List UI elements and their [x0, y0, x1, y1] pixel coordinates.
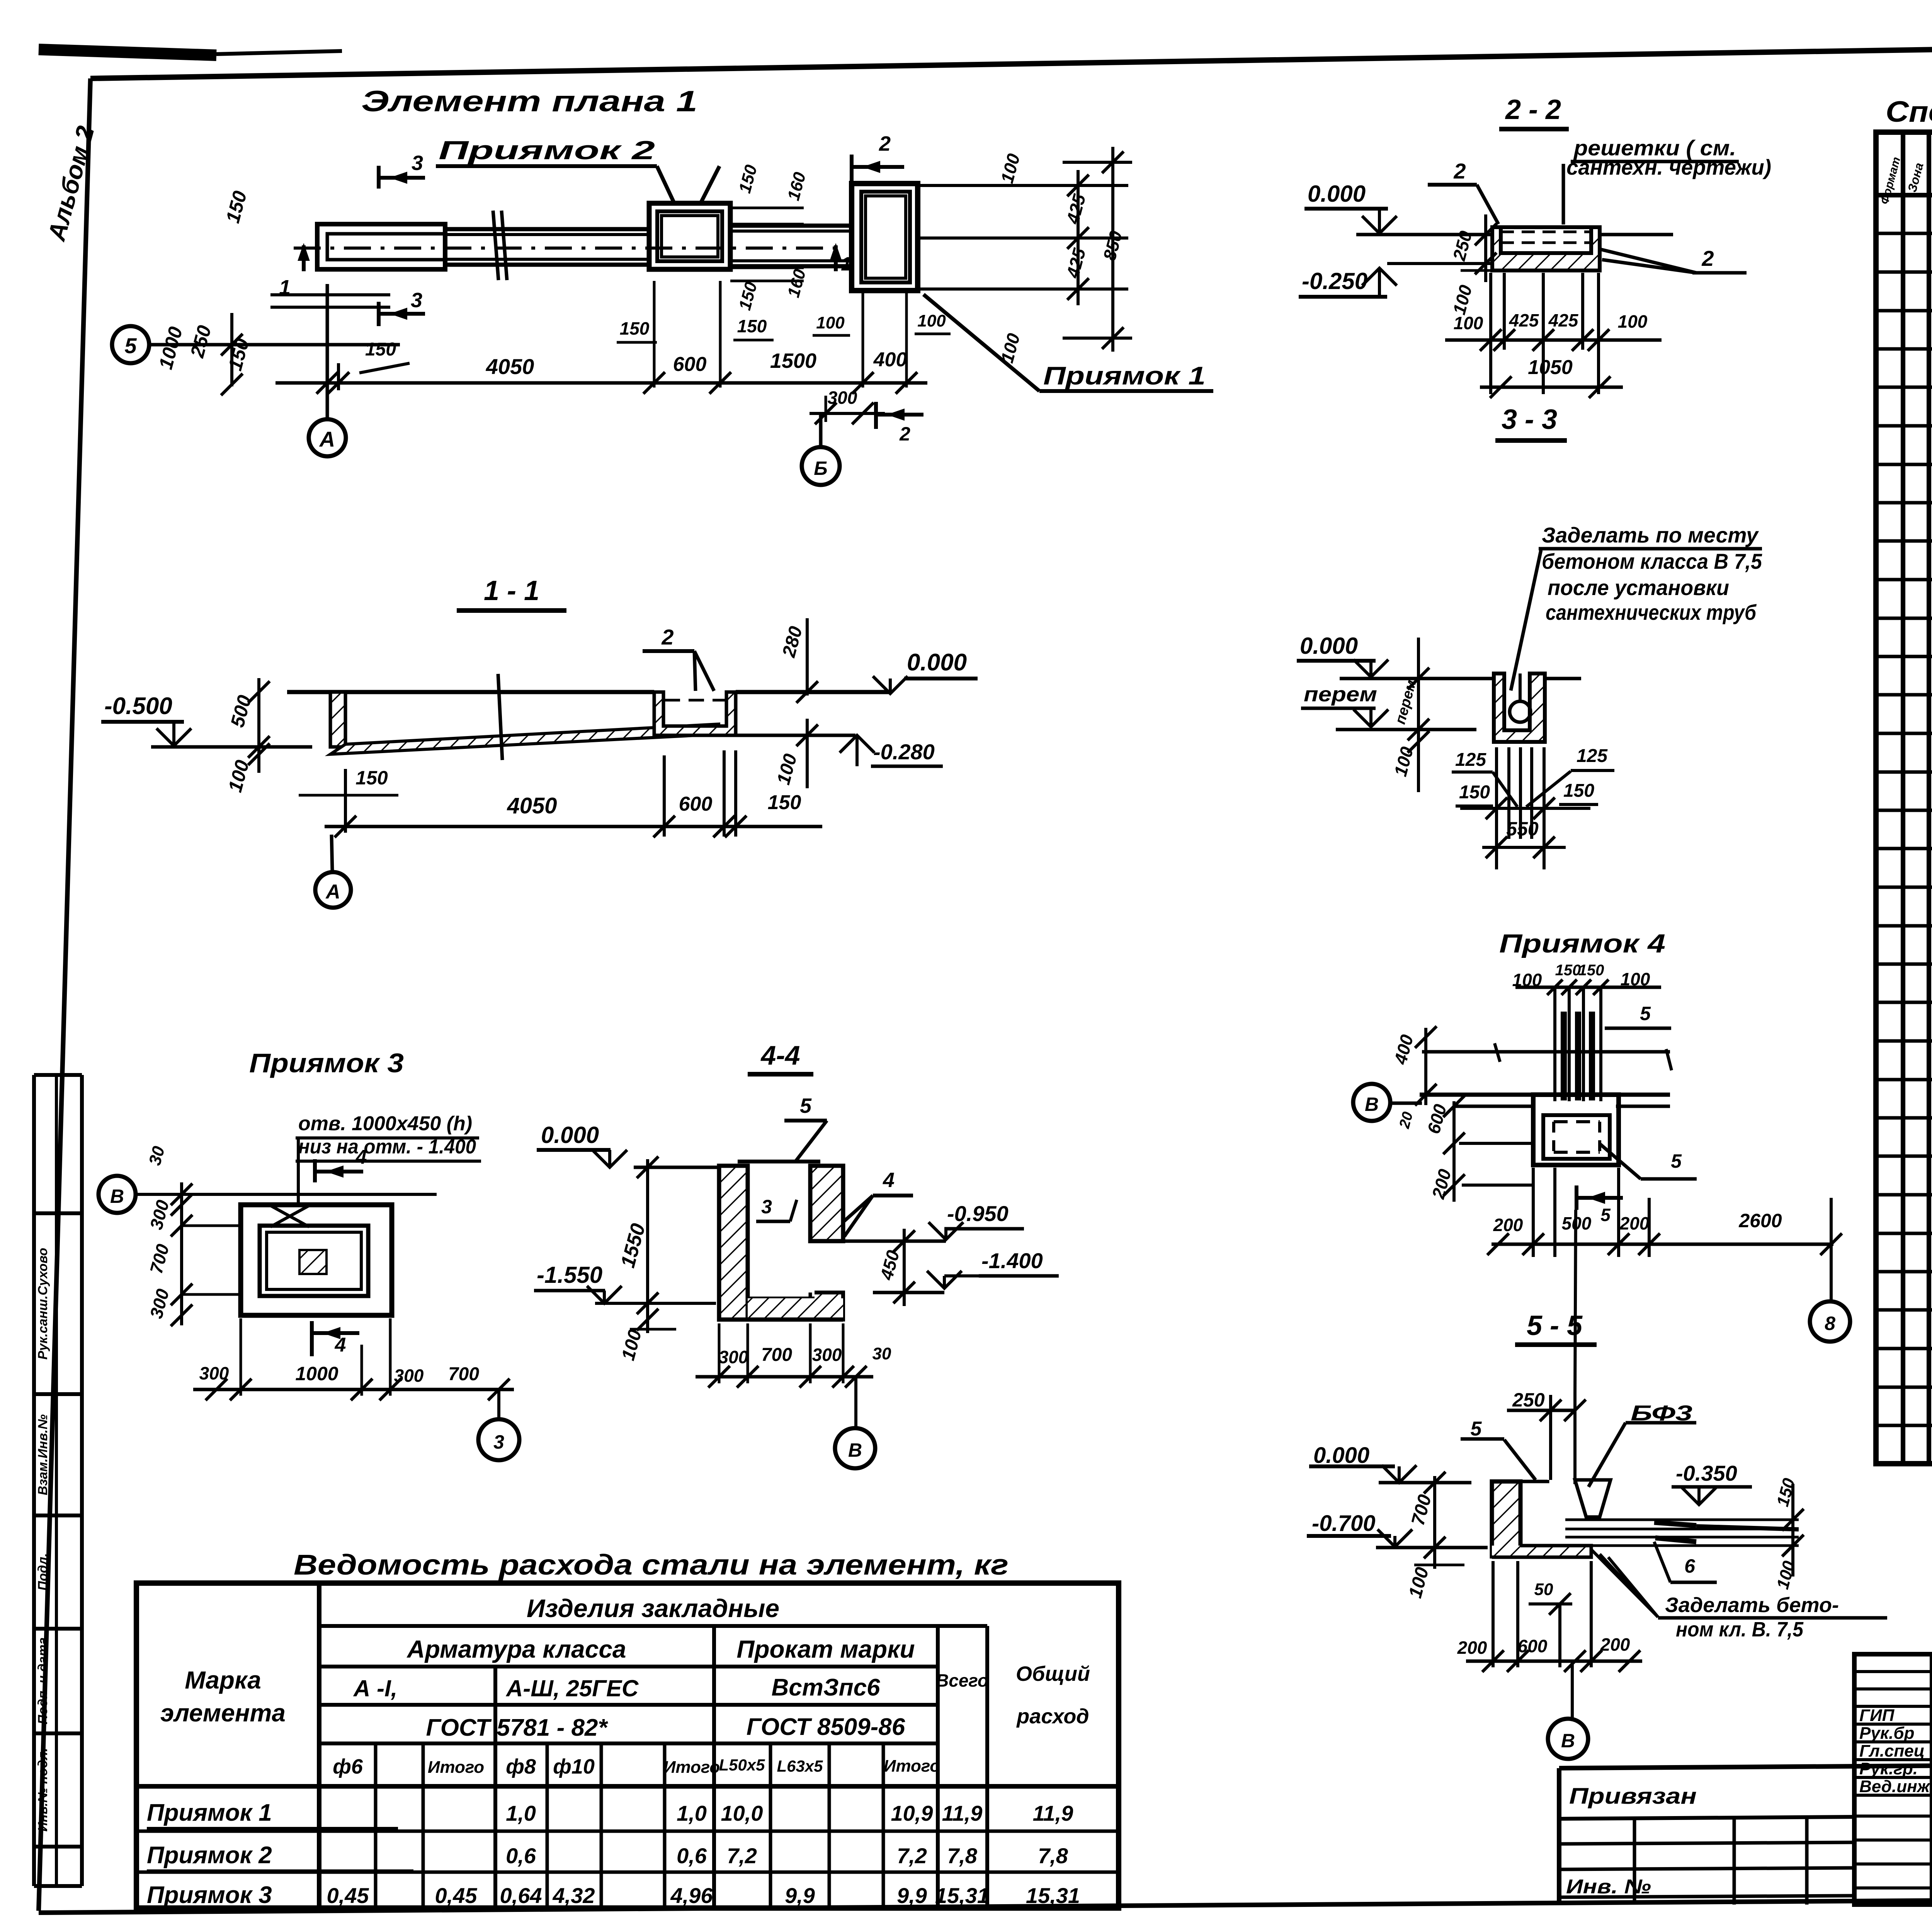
axis circle B plan — [819, 413, 823, 447]
svg-text:150: 150 — [1459, 782, 1490, 803]
svg-text:100: 100 — [1454, 313, 1483, 333]
plan section mark 1 left — [302, 245, 306, 271]
svg-text:600: 600 — [679, 793, 713, 815]
svg-text:1050: 1050 — [1528, 356, 1573, 379]
sec1 pit2 box — [654, 692, 736, 735]
svg-text:-0.280: -0.280 — [873, 740, 935, 764]
sec44 cavity and bottom slab — [746, 1166, 750, 1298]
sec33 note leader — [1511, 550, 1541, 690]
svg-text:1500: 1500 — [770, 349, 816, 372]
svg-text:Привязан: Привязан — [1569, 1784, 1697, 1809]
svg-text:5 - 5: 5 - 5 — [1527, 1310, 1583, 1341]
svg-text:0.000: 0.000 — [907, 649, 967, 676]
privyazan grid — [1559, 1842, 1854, 1844]
svg-text:Вед.инж: Вед.инж — [1859, 1777, 1931, 1796]
svg-text:ГИП: ГИП — [1859, 1706, 1895, 1725]
pit2 height dims cluster — [730, 207, 804, 209]
title block personnel table frame — [1854, 1654, 1932, 1905]
svg-text:700: 700 — [448, 1364, 479, 1384]
svg-text:7,8: 7,8 — [1038, 1844, 1068, 1868]
svg-text:L63х5: L63х5 — [777, 1757, 823, 1775]
sec44 right lower step hatched — [815, 1293, 843, 1320]
svg-text:Заделать бето-: Заделать бето- — [1665, 1594, 1839, 1617]
spec table header row line — [1876, 193, 1932, 197]
svg-text:2: 2 — [1701, 246, 1714, 270]
svg-text:L50х5: L50х5 — [719, 1756, 765, 1774]
spec table column lines — [1901, 132, 1905, 1464]
sec1 left wall hatched — [330, 692, 345, 747]
sec22 dim 1050 — [1480, 386, 1623, 389]
svg-text:ГОСТ 8509-86: ГОСТ 8509-86 — [747, 1714, 905, 1740]
pit1 box in plan — [852, 184, 918, 291]
sec22 bottom verticals — [1489, 273, 1492, 394]
pit3 bottom dims — [193, 1388, 514, 1391]
sec33 pipe circle — [1510, 701, 1531, 722]
svg-text:600: 600 — [1518, 1636, 1548, 1656]
pit3 center hatch blob — [299, 1250, 327, 1274]
svg-text:Приямок 1: Приямок 1 — [1043, 361, 1206, 390]
steel table outer frame — [136, 1583, 1119, 1908]
sec33 u-block hatched — [1494, 673, 1545, 742]
svg-text:200: 200 — [1600, 1634, 1630, 1655]
svg-text:В: В — [848, 1439, 862, 1461]
svg-text:100: 100 — [1618, 311, 1648, 332]
svg-text:1,0: 1,0 — [677, 1801, 707, 1825]
sec33 dim line under — [1460, 807, 1590, 810]
svg-text:Спецификация.. на монолитные: Спецификация.. на монолитные конструкции — [1886, 95, 1932, 128]
svg-text:Приямок 2: Приямок 2 — [147, 1842, 272, 1869]
svg-text:0,6: 0,6 — [677, 1844, 707, 1868]
svg-text:300: 300 — [719, 1347, 748, 1367]
axis line A vertical — [326, 284, 329, 419]
svg-text:ф10: ф10 — [553, 1755, 595, 1778]
svg-text:5: 5 — [1600, 1205, 1611, 1225]
svg-text:расход: расход — [1016, 1705, 1089, 1728]
svg-text:В: В — [110, 1185, 124, 1207]
pit3 outer square — [241, 1205, 392, 1315]
sec44 left wall hatched — [719, 1166, 748, 1320]
privyazan area lines — [1559, 1764, 1932, 1768]
plan section mark 3 lower — [377, 302, 381, 326]
pit3 axis B — [99, 1176, 136, 1213]
sec33 ground lines — [1340, 677, 1494, 680]
svg-text:3 - 3: 3 - 3 — [1502, 404, 1557, 435]
svg-text:150: 150 — [620, 318, 650, 338]
pit4 wall break right — [1666, 1049, 1672, 1070]
svg-text:7,2: 7,2 — [897, 1844, 927, 1868]
sheet frame top border — [90, 37, 1932, 78]
pit3 cross mark — [270, 1206, 309, 1227]
svg-text:Взам.Инв.№: Взам.Инв.№ — [36, 1414, 50, 1495]
sec44 right ledge level lines — [816, 1240, 946, 1243]
svg-text:-1.550: -1.550 — [537, 1262, 602, 1288]
svg-text:-0.250: -0.250 — [1302, 268, 1367, 294]
svg-text:4050: 4050 — [507, 793, 557, 818]
sec55 left rotated dims — [1433, 1476, 1436, 1569]
svg-text:А -I,: А -I, — [353, 1675, 397, 1701]
svg-text:15,31: 15,31 — [1026, 1883, 1080, 1908]
svg-text:2: 2 — [899, 423, 910, 445]
svg-text:1: 1 — [841, 253, 852, 275]
svg-text:Общий: Общий — [1016, 1662, 1090, 1685]
svg-text:10,9: 10,9 — [891, 1801, 933, 1825]
svg-text:0,64: 0,64 — [500, 1883, 542, 1908]
svg-text:0.000: 0.000 — [1313, 1443, 1369, 1468]
steel table header horizontal lines — [319, 1624, 987, 1628]
svg-text:30: 30 — [872, 1344, 891, 1363]
svg-text:Инв.№ подл.: Инв.№ подл. — [36, 1748, 50, 1832]
svg-text:0,6: 0,6 — [506, 1844, 536, 1868]
svg-text:3: 3 — [412, 151, 423, 175]
svg-text:9,9: 9,9 — [897, 1883, 927, 1908]
svg-text:0.000: 0.000 — [1300, 633, 1358, 659]
svg-text:0,45: 0,45 — [327, 1883, 369, 1908]
sec55 pipes — [1565, 1519, 1799, 1521]
sec1 bottom dims — [325, 825, 822, 828]
sec1 floor slab hatched — [330, 724, 719, 754]
sec22 note leader — [1562, 164, 1565, 224]
svg-text:300: 300 — [394, 1366, 424, 1386]
sec55 bottom dims — [1466, 1660, 1642, 1663]
svg-text:425: 425 — [1548, 310, 1579, 330]
pit4 upper line with break — [1422, 1050, 1670, 1054]
svg-text:1: 1 — [279, 276, 291, 299]
svg-text:7,8: 7,8 — [947, 1844, 978, 1868]
sidebar margin boxes — [34, 1073, 82, 1077]
svg-text:Прокат марки: Прокат марки — [736, 1635, 915, 1663]
svg-text:1 - 1: 1 - 1 — [484, 575, 539, 606]
sec22 grate dashed lines — [1492, 225, 1600, 229]
svg-text:Элемент плана 1: Элемент плана 1 — [361, 85, 697, 118]
svg-text:4,32: 4,32 — [553, 1883, 595, 1908]
pit4 wall top lines — [1420, 1093, 1670, 1097]
section cut 5-5 vertical line — [1575, 1210, 1576, 1394]
svg-text:А-Ш, 25ГЕС: А-Ш, 25ГЕС — [505, 1675, 639, 1701]
sheet frame bottom border — [39, 1896, 1932, 1913]
svg-text:4: 4 — [883, 1168, 895, 1192]
svg-text:Итого: Итого — [428, 1758, 484, 1777]
plan section mark 3 upper — [377, 166, 381, 189]
svg-text:элемента: элемента — [160, 1699, 286, 1727]
plan channel walls right — [730, 224, 852, 228]
sec1 axis circle A — [332, 835, 332, 872]
sec55 axis circle B — [1571, 1663, 1574, 1719]
svg-text:4050: 4050 — [486, 354, 534, 379]
svg-text:150: 150 — [1578, 962, 1604, 979]
svg-text:В: В — [1561, 1730, 1575, 1752]
svg-text:отв. 1000x450 (h): отв. 1000x450 (h) — [298, 1112, 472, 1135]
svg-text:Подп. и дата: Подп. и дата — [36, 1637, 50, 1724]
sec55 wall top step — [1520, 1480, 1548, 1481]
svg-text:1,0: 1,0 — [506, 1801, 536, 1825]
sec44 dim 450 rotated — [903, 1229, 906, 1306]
sec55 funnel BF3 — [1575, 1480, 1611, 1517]
svg-text:4-4: 4-4 — [760, 1040, 800, 1070]
svg-text:300: 300 — [812, 1345, 842, 1365]
svg-text:перем: перем — [1304, 683, 1377, 706]
svg-text:600: 600 — [673, 353, 707, 376]
svg-text:10,0: 10,0 — [721, 1801, 763, 1825]
pit1 right side dims — [920, 184, 1128, 187]
sec44 right wall hatched upper — [810, 1166, 843, 1241]
sec55 wall hatched — [1492, 1481, 1520, 1556]
pit4 bottom dim chain — [1492, 1243, 1833, 1246]
sec33 sleeve verticals — [1507, 747, 1510, 839]
axis line 5 horizontal — [149, 343, 400, 347]
svg-text:Инв. №: Инв. № — [1566, 1876, 1651, 1898]
svg-text:250: 250 — [1512, 1389, 1545, 1411]
svg-text:2 - 2: 2 - 2 — [1505, 94, 1561, 125]
svg-text:100: 100 — [816, 313, 845, 332]
svg-text:В: В — [1365, 1094, 1379, 1115]
svg-text:4: 4 — [355, 1146, 367, 1168]
svg-text:150: 150 — [768, 791, 801, 814]
sec1 left dims 500 100 — [257, 678, 260, 773]
svg-text:150: 150 — [1555, 962, 1581, 979]
svg-text:Рук.бр: Рук.бр — [1859, 1724, 1914, 1743]
svg-text:2: 2 — [1453, 159, 1466, 183]
plan bottom dimension chain — [276, 381, 927, 385]
svg-text:-1.400: -1.400 — [981, 1248, 1043, 1273]
sec44 axis circle B — [854, 1377, 857, 1428]
svg-text:Приямок 1: Приямок 1 — [147, 1799, 272, 1826]
svg-text:5: 5 — [124, 333, 137, 358]
svg-text:2: 2 — [661, 625, 673, 649]
svg-text:100: 100 — [917, 311, 946, 330]
plan channel left section — [317, 224, 445, 269]
svg-text:А: А — [325, 881, 340, 903]
steel table vertical lines — [317, 1583, 321, 1908]
svg-text:200: 200 — [1619, 1213, 1650, 1233]
pit4 section mark 5 bottom — [1575, 1185, 1578, 1210]
svg-text:125: 125 — [1455, 750, 1486, 770]
svg-text:сантехнических труб: сантехнических труб — [1546, 600, 1757, 624]
svg-text:Изделия закладные: Изделия закладные — [527, 1594, 779, 1622]
svg-text:Рук.санш.Сухово: Рук.санш.Сухово — [36, 1248, 50, 1359]
svg-text:150: 150 — [737, 316, 767, 336]
svg-text:2: 2 — [879, 132, 891, 155]
svg-text:бетоном класса В 7,5: бетоном класса В 7,5 — [1542, 549, 1762, 573]
svg-text:Ведомость расхода стали на: Ведомость расхода стали на элемент, кг — [294, 1549, 1009, 1581]
pit4 rebar thin verticals — [1553, 987, 1556, 1101]
svg-text:15,31: 15,31 — [935, 1883, 989, 1908]
svg-text:700: 700 — [761, 1345, 792, 1365]
svg-text:Итого: Итого — [884, 1757, 940, 1776]
plan channel centerline — [294, 247, 835, 250]
spec table outer frame — [1876, 132, 1932, 1464]
pit4 axis circle 8 — [1830, 1198, 1833, 1245]
svg-text:низ на отм. - 1.400: низ на отм. - 1.400 — [298, 1136, 476, 1158]
sec44 bottom dims — [696, 1375, 873, 1379]
svg-text:Приямок 2: Приямок 2 — [439, 136, 655, 165]
svg-text:550: 550 — [1506, 818, 1539, 840]
svg-text:Приямок 3: Приямок 3 — [249, 1048, 404, 1078]
sec1 ground and top slab line — [287, 690, 654, 694]
svg-text:5: 5 — [1671, 1150, 1682, 1172]
svg-text:5: 5 — [1471, 1418, 1482, 1440]
svg-text:Гл.спец: Гл.спец — [1859, 1742, 1925, 1760]
pit2 box in plan — [649, 203, 730, 269]
sec55 slab hatched — [1492, 1546, 1591, 1557]
sheet top-left scan smear — [39, 49, 216, 55]
sheet frame left border — [39, 78, 90, 1911]
svg-text:Приямок 4: Приямок 4 — [1499, 929, 1665, 958]
svg-text:150: 150 — [355, 767, 388, 789]
svg-text:-0.350: -0.350 — [1676, 1461, 1737, 1485]
title block personnel row lines — [1854, 1670, 1932, 1673]
pit3 section mark 4 upper — [313, 1159, 317, 1182]
sec44 grate line item5 — [738, 1160, 820, 1163]
sec55 note leaders — [1591, 1549, 1658, 1617]
pit4 pit box — [1533, 1095, 1619, 1165]
svg-text:50: 50 — [1534, 1580, 1553, 1599]
svg-text:300: 300 — [828, 388, 857, 408]
svg-text:3: 3 — [761, 1196, 772, 1218]
svg-text:3: 3 — [493, 1431, 504, 1453]
svg-text:ном кл. В. 7,5: ном кл. В. 7,5 — [1676, 1618, 1804, 1641]
svg-text:300: 300 — [199, 1363, 229, 1383]
plan left dimension ticks — [230, 313, 233, 386]
svg-text:1000: 1000 — [295, 1363, 338, 1384]
svg-text:Рук.гр.: Рук.гр. — [1859, 1759, 1918, 1778]
svg-text:5: 5 — [1640, 1003, 1651, 1024]
plan section mark 2 lower — [874, 402, 878, 429]
svg-text:4: 4 — [335, 1334, 346, 1356]
svg-text:9,9: 9,9 — [785, 1883, 815, 1908]
svg-text:Марка: Марка — [185, 1666, 261, 1694]
svg-text:3: 3 — [411, 289, 422, 312]
svg-text:125: 125 — [1577, 746, 1608, 766]
svg-text:400: 400 — [873, 349, 907, 371]
pit3 inner square — [260, 1226, 368, 1296]
svg-text:150: 150 — [365, 339, 396, 360]
svg-text:4,96: 4,96 — [670, 1883, 713, 1908]
svg-text:Итого: Итого — [663, 1758, 720, 1777]
svg-text:7,2: 7,2 — [727, 1844, 757, 1868]
sec55 right rotated dims — [1791, 1484, 1794, 1577]
plan break marks — [493, 211, 498, 280]
svg-text:-0.700: -0.700 — [1312, 1511, 1375, 1536]
svg-text:200: 200 — [1457, 1638, 1487, 1658]
pit3 section mark 4 lower — [310, 1321, 314, 1356]
svg-text:ГОСТ 5781 - 82*: ГОСТ 5781 - 82* — [426, 1714, 608, 1741]
svg-text:Подл.: Подл. — [36, 1553, 50, 1591]
svg-text:сантехн. чертежи): сантехн. чертежи) — [1566, 155, 1771, 179]
svg-text:-0.500: -0.500 — [104, 693, 172, 719]
svg-text:0,45: 0,45 — [435, 1883, 478, 1908]
sec1 level -0.280 right — [736, 734, 855, 737]
svg-text:5: 5 — [800, 1094, 812, 1117]
svg-text:11,9: 11,9 — [1033, 1801, 1073, 1825]
svg-text:Приямок 3: Приямок 3 — [147, 1882, 272, 1908]
svg-text:Заделать по месту: Заделать по месту — [1542, 523, 1759, 547]
sec33 dim perem rotated — [1417, 638, 1420, 792]
plan section mark 1 right — [834, 245, 838, 271]
svg-text:200: 200 — [1493, 1215, 1523, 1235]
svg-text:-0.950: -0.950 — [947, 1201, 1009, 1226]
pit4 rebar pins thick — [1561, 1012, 1567, 1100]
svg-text:11,9: 11,9 — [942, 1801, 983, 1825]
sec44 dim 1550 rotated — [646, 1159, 649, 1333]
sec1 break mark — [498, 674, 502, 760]
svg-text:после установки: после установки — [1548, 575, 1729, 600]
svg-text:ф6: ф6 — [333, 1755, 363, 1778]
sec22 left dims rotated — [1484, 214, 1487, 282]
svg-text:Арматура класса: Арматура класса — [406, 1635, 626, 1663]
sec22 trench body — [1492, 227, 1600, 270]
svg-text:А: А — [319, 427, 335, 451]
axis circle 5 — [112, 326, 149, 363]
steel table data row underlines — [147, 1827, 398, 1830]
sec22 ground line right — [1600, 233, 1673, 236]
svg-text:425: 425 — [1509, 310, 1539, 330]
svg-text:2600: 2600 — [1738, 1210, 1782, 1231]
svg-text:0.000: 0.000 — [541, 1122, 599, 1148]
svg-text:8: 8 — [1825, 1313, 1835, 1334]
sec22 dim chain 100-425-425-100 — [1445, 338, 1662, 342]
plan channel walls middle — [445, 227, 649, 231]
svg-text:Всего: Всего — [936, 1670, 988, 1690]
svg-text:Б: Б — [814, 457, 827, 479]
svg-text:ВстЗпс6: ВстЗпс6 — [771, 1674, 880, 1701]
axis circle A — [309, 419, 346, 456]
svg-text:ф8: ф8 — [506, 1755, 536, 1778]
svg-text:150: 150 — [1563, 781, 1594, 801]
pit3 axis circle 3 — [497, 1389, 500, 1419]
pit4 axis B — [1353, 1084, 1390, 1121]
svg-text:0.000: 0.000 — [1308, 181, 1366, 207]
svg-text:6: 6 — [1684, 1555, 1696, 1577]
